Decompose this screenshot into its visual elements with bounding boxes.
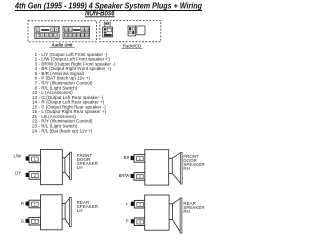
svg-text:P: P: [126, 218, 129, 223]
wire BR terminal and plug pin 1: [131, 156, 134, 160]
rear speaker LH body: [41, 195, 63, 230]
svg-text:22: 22: [69, 33, 73, 37]
svg-text:14: 14: [69, 28, 73, 32]
svg-text:BR/W: BR/W: [119, 173, 130, 178]
svg-text:1: 1: [139, 157, 141, 161]
svg-text:1: 1: [139, 203, 141, 207]
svg-text:2: 2: [34, 220, 36, 224]
front door speaker RH cone: [169, 153, 182, 184]
front door speaker RH body: [145, 150, 169, 185]
front door speaker LH body: [41, 150, 63, 185]
svg-text:12: 12: [54, 33, 58, 37]
pin assignment list: [32, 52, 116, 134]
radio/cd dashed enclosure: [100, 21, 161, 42]
svg-text:24: 24: [77, 33, 81, 37]
svg-text:26: 26: [85, 33, 89, 37]
connector plug M45 (radio/cd left): [103, 22, 113, 37]
svg-text:2: 2: [139, 220, 141, 224]
rear speaker RH cone: [169, 198, 182, 233]
wire L/W terminal and plug pin 1: [26, 156, 29, 160]
svg-text:Radio/CD: Radio/CD: [123, 43, 141, 48]
svg-text:10: 10: [50, 33, 54, 37]
wire G terminal and plug pin 2: [26, 219, 29, 223]
rear speaker RH label: [183, 201, 204, 214]
title line 2 underline: [85, 16, 115, 18]
wire L terminal and plug pin 1: [131, 202, 134, 206]
front door speaker LH cone: [62, 152, 71, 179]
svg-text:20: 20: [85, 28, 89, 32]
audio unit dashed enclosure: [28, 21, 96, 42]
svg-text:L: L: [126, 201, 129, 206]
rear speaker LH label: [77, 200, 98, 213]
svg-text:21: 21: [65, 33, 69, 37]
connector plug M43 (audio unit left): [35, 26, 59, 38]
svg-text:2: 2: [139, 175, 141, 179]
svg-text:LH: LH: [77, 165, 83, 170]
svg-text:G: G: [21, 218, 24, 223]
svg-text:24: 24: [32, 128, 38, 133]
svg-text:L/W: L/W: [14, 154, 21, 159]
rear speaker LH cone: [62, 197, 71, 226]
front door speaker LH label: [77, 153, 98, 170]
svg-text:19: 19: [81, 28, 85, 32]
svg-text:2: 2: [34, 174, 36, 178]
front door speaker RH label: [183, 154, 204, 171]
svg-text:23: 23: [73, 33, 77, 37]
title line 1 underline: [15, 10, 202, 12]
wire L/Y terminal and plug pin 2: [26, 173, 29, 177]
svg-text:- R/L (Bat (back up) 12v +): - R/L (Bat (back up) 12v +): [39, 128, 93, 133]
svg-text:Audio Unit: Audio Unit: [51, 43, 73, 48]
svg-text:L/Y: L/Y: [15, 171, 21, 176]
rear speaker RH body: [145, 195, 169, 230]
svg-text:NON-Bose: NON-Bose: [85, 8, 115, 17]
svg-text:25: 25: [81, 33, 85, 37]
svg-text:BR: BR: [124, 155, 130, 160]
svg-text:R: R: [21, 201, 24, 206]
svg-text:1: 1: [34, 157, 36, 161]
connector plug M44 (audio unit right): [63, 26, 90, 38]
svg-text:RH: RH: [183, 166, 189, 171]
svg-text:LH: LH: [77, 208, 83, 213]
connector plug pair M46 (radio/cd right): [128, 26, 145, 36]
svg-text:13: 13: [65, 28, 69, 32]
svg-text:1: 1: [34, 203, 36, 207]
wire BR/W terminal and plug pin 2: [131, 174, 134, 178]
wire P terminal and plug pin 2: [131, 219, 134, 223]
wire R terminal and plug pin 1: [26, 202, 29, 206]
svg-text:RH: RH: [183, 209, 189, 214]
